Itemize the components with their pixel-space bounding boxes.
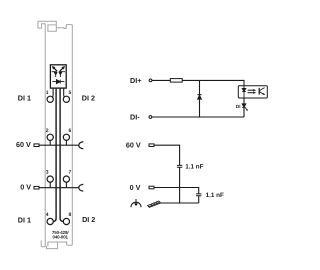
stub terminal 7 to 0V wire [65, 182, 67, 188]
wire DI+ to resistor [152, 79, 170, 81]
60V wire right [154, 145, 180, 165]
DIN rail symbol [148, 201, 165, 207]
wire box to terminal 5 [63, 88, 66, 97]
60V female contact fork [79, 142, 84, 149]
svg-text:DI: DI [236, 104, 241, 109]
svg-text:5: 5 [69, 90, 72, 96]
60V wire across module [39, 144, 79, 146]
svg-text:60 V: 60 V [126, 141, 141, 150]
status LED on output [242, 104, 248, 111]
wire resistor to optocoupler [182, 80, 244, 85]
svg-text:0 V: 0 V [20, 182, 31, 191]
terminal 2 [47, 134, 53, 140]
optocoupler phototransistor [259, 88, 265, 95]
svg-text:0 V: 0 V [130, 183, 141, 192]
svg-text:8: 8 [69, 212, 72, 218]
status LED DI1 inside box [52, 67, 58, 78]
resistor R1 [170, 79, 182, 83]
svg-text:1.1 nF: 1.1 nF [185, 164, 203, 171]
svg-text:DI 1: DI 1 [18, 215, 31, 224]
svg-text:1: 1 [46, 90, 49, 96]
60V terminal right [149, 144, 154, 147]
0V wire right [154, 188, 199, 194]
0V terminal right [149, 186, 154, 189]
terminal 6 [63, 134, 69, 140]
60V field terminal left [34, 144, 39, 147]
terminal 4 [47, 218, 53, 224]
wire box to terminal 1 [51, 88, 54, 97]
svg-text:3: 3 [46, 170, 49, 176]
DI- terminal [149, 116, 152, 119]
module housing top outline [38, 21, 72, 248]
terminal 3 [47, 176, 53, 182]
svg-text:DI-: DI- [130, 112, 140, 121]
svg-text:DI+: DI+ [130, 76, 141, 85]
svg-text:DI 1: DI 1 [18, 93, 31, 102]
0V female contact fork [79, 184, 84, 191]
terminal 8 [63, 218, 69, 224]
stub terminal 6 to 60V wire [65, 140, 67, 145]
earth bottom wire [161, 202, 199, 204]
module housing bottom outline [41, 240, 45, 246]
0V field terminal left [34, 186, 39, 189]
status LED DI2 inside box [59, 67, 65, 78]
terminal 7 [63, 176, 69, 182]
power jumper bus wire right [60, 88, 63, 221]
stub terminal 3 to 0V wire [49, 182, 51, 188]
protection diode V1 [197, 94, 201, 96]
capacitor C1 [177, 165, 182, 167]
svg-text:7: 7 [69, 170, 72, 176]
stub terminal 2 to 60V wire [49, 140, 51, 145]
wire optocoupler to status LED [243, 98, 245, 117]
indicator box (LED/diode block) [50, 65, 66, 88]
svg-text:60 V: 60 V [16, 140, 31, 149]
optocoupler light arrows [248, 89, 257, 94]
svg-text:040-001: 040-001 [52, 235, 68, 240]
svg-text:2: 2 [46, 128, 49, 134]
DI+ terminal [149, 79, 152, 82]
protection diode branch wire [199, 80, 201, 117]
svg-text:4: 4 [46, 212, 49, 218]
optocoupler LED [242, 86, 246, 98]
terminal 1 [47, 96, 53, 102]
optocoupler U1 box [238, 86, 267, 98]
power jumper bus wire left [53, 88, 56, 221]
svg-text:DI 2: DI 2 [82, 215, 95, 224]
terminal 5 [63, 96, 69, 102]
svg-text:1.1 nF: 1.1 nF [206, 192, 224, 199]
svg-text:6: 6 [69, 128, 72, 134]
diode inside box [52, 80, 64, 84]
svg-text:DI 2: DI 2 [82, 94, 95, 103]
0V wire across module [39, 187, 79, 189]
capacitor C2 [196, 194, 201, 196]
functional earth symbol [131, 199, 141, 207]
wire to DI- [152, 116, 244, 118]
